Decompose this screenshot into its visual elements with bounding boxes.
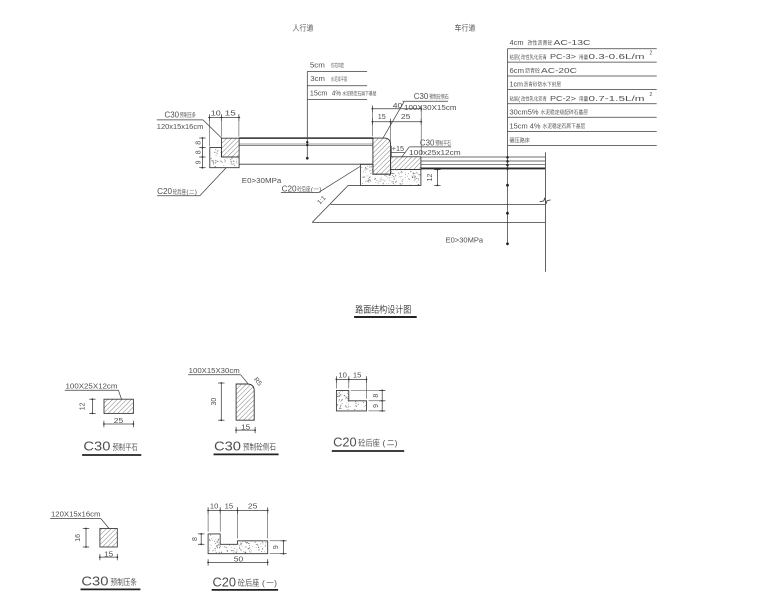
detail4 dim 16 line — [85, 529, 87, 548]
svg-text:5cm: 5cm — [310, 61, 325, 70]
leader dot 15cm layer — [306, 157, 309, 160]
svg-text:50: 50 — [234, 555, 244, 564]
C20 砼后座(二) concrete base (stippled) — [210, 148, 239, 168]
svg-text:15cm: 15cm — [310, 89, 328, 98]
svg-text:2: 2 — [650, 51, 653, 57]
dim tick — [371, 119, 373, 125]
svg-text:E0>30MPa: E0>30MPa — [242, 176, 282, 185]
svg-text:C30: C30 — [214, 439, 241, 453]
dim tick — [198, 533, 204, 535]
pavement table hline 4 — [508, 89, 657, 91]
dim tick — [267, 507, 269, 513]
sidewalk layer table line 2 — [307, 85, 367, 87]
detail3 title underline — [332, 450, 404, 452]
svg-text:8: 8 — [373, 394, 380, 398]
detail1 dim 12 line — [91, 399, 93, 413]
table leader dot — [506, 156, 509, 159]
detail3 right dim line 8,9 — [381, 390, 383, 411]
title underline — [354, 316, 417, 318]
压条 precast strip block (hatched) — [222, 138, 240, 157]
detail1 flat stone block (hatched) — [104, 399, 133, 413]
detail5 dim 50 line — [208, 561, 268, 563]
road base top thick line — [421, 167, 546, 169]
dim tick — [348, 376, 350, 382]
detail1 title underline — [82, 454, 141, 456]
dim tick — [280, 553, 286, 555]
svg-text:3cm: 3cm — [310, 74, 325, 83]
label underline — [157, 195, 200, 197]
dim tick — [434, 169, 440, 171]
break symbol on cut line — [540, 198, 551, 203]
dim extension lines — [209, 120, 211, 147]
detail5 dim ext lines — [270, 540, 286, 542]
dim tick — [420, 106, 422, 112]
detail3 dim 10,15 line — [336, 378, 366, 380]
dim tick — [371, 106, 373, 112]
dim tick — [89, 412, 95, 414]
svg-text:120X15x16cm: 120X15x16cm — [51, 510, 101, 519]
detail4 label underline — [50, 518, 101, 520]
sidewalk table leader vertical — [306, 72, 308, 159]
dim tick — [199, 156, 205, 158]
dim tick — [379, 410, 385, 412]
svg-text:C20: C20 — [213, 575, 237, 589]
road layer line seal bottom — [421, 163, 546, 165]
dim tick — [132, 421, 134, 427]
detail4 title underline — [81, 588, 141, 590]
svg-text:120x15x16cm: 120x15x16cm — [157, 122, 204, 131]
svg-text:25: 25 — [248, 502, 258, 511]
svg-text:9: 9 — [273, 545, 280, 549]
svg-text:30: 30 — [211, 398, 218, 406]
detail2 dim 15 line — [236, 429, 255, 431]
svg-text:E0>30MPa: E0>30MPa — [446, 236, 484, 245]
sidewalk paving interface line 2 — [239, 145, 373, 147]
svg-text:10: 10 — [338, 370, 347, 379]
svg-text:25: 25 — [114, 416, 123, 425]
label: 人行道 (sidewalk) — [293, 24, 313, 32]
pavement table hline 5 — [508, 103, 657, 105]
svg-text:9: 9 — [373, 404, 380, 408]
svg-text:15: 15 — [225, 108, 236, 117]
svg-text:): ) — [274, 578, 277, 588]
detail5 title underline — [212, 589, 279, 591]
svg-text:10: 10 — [210, 502, 219, 511]
detail3 extension lines — [335, 382, 337, 389]
label underline — [403, 100, 448, 102]
right section cut vertical line — [544, 152, 546, 272]
svg-text:+15: +15 — [392, 146, 404, 153]
table leader dot — [506, 242, 509, 245]
svg-text:): ) — [395, 438, 398, 448]
svg-text:100X15X30cm: 100X15X30cm — [189, 366, 240, 375]
dim tick — [379, 400, 385, 402]
svg-text:0.3-0.6L/m: 0.3-0.6L/m — [589, 52, 645, 61]
svg-text:30cm5%: 30cm5% — [510, 108, 539, 117]
drawing title 路面结构设计图 — [356, 305, 411, 314]
road layer line AC bottom — [421, 160, 546, 162]
label underline — [409, 146, 451, 148]
svg-text:25: 25 — [401, 112, 410, 121]
dim tick — [207, 507, 209, 513]
dim tick — [199, 147, 205, 149]
dim tick — [99, 554, 101, 560]
svg-text:C20: C20 — [333, 435, 357, 449]
dim tick — [219, 507, 221, 513]
detail3 L-shaped base block (stippled) — [336, 390, 366, 411]
leader to 平石 — [402, 147, 409, 157]
svg-text:C30: C30 — [420, 139, 435, 148]
svg-text:4cm: 4cm — [510, 38, 524, 47]
dim tick — [198, 543, 204, 545]
dim tick — [83, 528, 89, 530]
table leader dot — [506, 212, 509, 215]
dim 10,15 above 压条: dim line — [208, 117, 240, 119]
detail5 left dim 8 line — [200, 534, 202, 544]
svg-text:0.7-1.5L/m: 0.7-1.5L/m — [589, 94, 645, 103]
dim extension lines — [371, 111, 373, 136]
dim tick — [237, 507, 239, 513]
dim tick — [254, 427, 256, 433]
svg-text:AC-20C: AC-20C — [541, 66, 578, 75]
label: 车行道 (roadway) — [455, 24, 475, 32]
leader dot 3cm layer — [306, 144, 308, 146]
curb stone C30预制砼侧石 (hatched, rounded top-right) — [373, 138, 391, 174]
dim tick — [390, 119, 392, 125]
svg-text:C30: C30 — [165, 110, 180, 119]
svg-text:C30: C30 — [81, 575, 108, 589]
pavement table hline 7 — [508, 131, 657, 133]
dim tick — [199, 137, 205, 139]
table row 2: 粘层(改性乳化沥青 PC-3) 用量0.3-0.6L/m2 — [510, 54, 518, 59]
label underline — [157, 119, 203, 121]
table row 8: 碾压路床 — [510, 137, 530, 143]
detail4 dim 15 line — [100, 556, 117, 558]
detail2 curb stone block (hatched, rounded top-right) — [236, 384, 254, 420]
detail2 title underline — [214, 453, 279, 455]
detail2 leader — [241, 375, 249, 385]
svg-text:PC-2>: PC-2> — [550, 94, 576, 103]
sidewalk layer table line 1 — [307, 71, 367, 73]
detail4 strip block (hatched) — [100, 529, 117, 548]
svg-text:8: 8 — [195, 150, 202, 154]
svg-text:100X30X15cm: 100X30X15cm — [404, 103, 457, 112]
svg-text:15cm 4%: 15cm 4% — [510, 121, 541, 130]
svg-text:(: ( — [383, 438, 386, 448]
detail3 dim ext lines — [351, 389, 384, 391]
dim tick — [218, 419, 224, 421]
table leader dot — [506, 184, 509, 187]
dim 15/25: dim line — [372, 121, 421, 123]
leader dot 5cm layer — [306, 141, 308, 143]
pavement table hline 1 — [508, 48, 657, 50]
svg-text:8: 8 — [192, 537, 199, 541]
detail1 label underline — [65, 389, 119, 391]
svg-text:9: 9 — [195, 160, 202, 164]
1:1 slope line — [312, 185, 348, 222]
detail4 leader — [101, 519, 109, 529]
dim tick — [434, 184, 440, 186]
dim tick — [267, 559, 269, 565]
road base bottom line — [331, 204, 546, 206]
pavement table leader vertical with dots — [507, 146, 509, 244]
svg-text:AC-13C: AC-13C — [554, 38, 592, 47]
detail1 leader — [118, 390, 121, 399]
svg-text:6cm: 6cm — [510, 66, 525, 75]
svg-text:(: ( — [518, 97, 520, 103]
leader to 压条 — [203, 120, 222, 138]
svg-text:15: 15 — [225, 502, 234, 511]
dim tick — [83, 546, 89, 548]
dim tick — [209, 114, 211, 120]
svg-text:12: 12 — [427, 174, 434, 182]
flat stone C30预制平石 (hatched) — [391, 157, 421, 170]
svg-text:(: ( — [262, 578, 265, 588]
dim tick — [89, 398, 95, 400]
dim tick — [280, 540, 286, 542]
svg-text:40: 40 — [393, 101, 403, 110]
svg-text:(: ( — [518, 55, 520, 61]
sidewalk surface line — [239, 137, 373, 139]
detail5 right dim 9 line — [283, 541, 285, 554]
dim tick — [335, 376, 337, 382]
dim tick — [218, 382, 224, 384]
table leader dot — [506, 160, 509, 163]
left vertical dim line 8,8,9 — [201, 138, 203, 168]
svg-text:15: 15 — [104, 549, 113, 558]
road surface line — [421, 156, 546, 158]
road subbase bottom line — [312, 221, 545, 223]
leader to base — [200, 168, 226, 196]
detail5 dim 10,15,25 line — [208, 510, 268, 512]
pavement table hline 3 — [508, 75, 657, 77]
dim tick — [116, 554, 118, 560]
svg-text:C30: C30 — [83, 440, 110, 454]
svg-text:12: 12 — [79, 402, 86, 410]
sidewalk layer table line 3 — [307, 99, 367, 101]
C20 砼后座(一) concrete base (stippled) — [360, 164, 421, 185]
svg-text:15: 15 — [378, 112, 386, 121]
dim tick — [103, 421, 105, 427]
svg-text:10: 10 — [211, 108, 221, 117]
svg-text:4%: 4% — [332, 89, 341, 98]
dim tick — [366, 376, 368, 382]
label underline — [281, 192, 319, 194]
pavement table hline 6 — [508, 116, 657, 118]
base bottom ledge line — [348, 184, 360, 186]
svg-text:): ) — [319, 187, 321, 194]
svg-text:C30: C30 — [414, 92, 429, 101]
detail5 long base block (stippled) — [208, 534, 268, 554]
dim 40: dim line — [372, 108, 421, 110]
pavement table hline 2 — [508, 61, 657, 63]
leader to base — [318, 167, 360, 193]
svg-text:100X25X12cm: 100X25X12cm — [66, 382, 118, 391]
pavement table hline 8 — [508, 145, 657, 147]
dim tick — [235, 427, 237, 433]
detail5 extension lines — [207, 513, 209, 532]
pavement table left border — [507, 49, 509, 146]
svg-text:16: 16 — [75, 534, 82, 542]
svg-text:100x25x12cm: 100x25x12cm — [409, 148, 461, 157]
svg-text:C20: C20 — [282, 185, 298, 194]
dim 12: dim line — [436, 170, 438, 186]
svg-text:2: 2 — [650, 92, 653, 98]
svg-text:): ) — [195, 189, 197, 196]
leader to curb — [383, 102, 404, 138]
table leader dot — [506, 164, 509, 167]
dim tick — [199, 167, 205, 169]
detail2 label underline — [188, 374, 241, 376]
table leader dot — [506, 167, 509, 170]
detail2 dim 30 line — [220, 383, 222, 420]
svg-text:C20: C20 — [157, 187, 173, 196]
dim tick — [238, 114, 240, 120]
dim tick — [420, 119, 422, 125]
svg-text:8: 8 — [195, 141, 202, 145]
svg-text:15: 15 — [353, 370, 362, 379]
table row 5: 粘层(改性乳化沥青 PC-2) 用量0.7-1.5L/m2 — [510, 96, 518, 101]
sidewalk paving interface line 1 — [239, 143, 373, 145]
dim tick — [207, 559, 209, 565]
sidewalk base bottom line — [239, 163, 373, 165]
dim tick — [221, 114, 223, 120]
svg-text:1cm: 1cm — [510, 80, 524, 89]
dim tick — [379, 389, 385, 391]
svg-text:PC-3>: PC-3> — [550, 52, 576, 61]
svg-text:15: 15 — [241, 422, 250, 431]
detail1 dim 25 line — [104, 423, 133, 425]
